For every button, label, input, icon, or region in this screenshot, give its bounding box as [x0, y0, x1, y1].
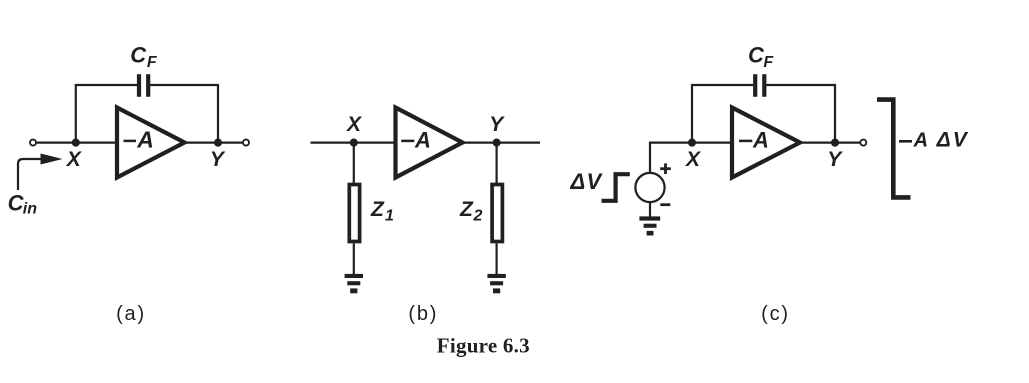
svg-text:Y: Y — [210, 148, 226, 171]
wire: source top to node X (c) — [650, 143, 692, 173]
minus sign of source — [660, 203, 670, 206]
label -A inside op-amp (a) — [124, 140, 137, 143]
step-down waveform symbol (output) — [877, 100, 911, 198]
svg-text:(b): (b) — [408, 303, 438, 325]
node X (a) — [72, 139, 80, 147]
wire: node X down to Z1 (b) — [353, 143, 355, 184]
svg-text:Y: Y — [489, 113, 505, 136]
output terminal (c) — [860, 140, 866, 146]
ground under Z2 — [487, 274, 505, 293]
svg-text:Y: Y — [827, 148, 843, 171]
svg-text:(c): (c) — [761, 303, 790, 325]
svg-text:A: A — [136, 127, 154, 153]
capacitor CF (c) — [755, 74, 764, 97]
svg-text:A: A — [414, 128, 431, 153]
label -A inside op-amp (b) — [401, 140, 414, 143]
op-amp -A (a) — [117, 108, 185, 178]
svg-text:(a): (a) — [116, 303, 146, 325]
svg-text:Z: Z — [459, 198, 474, 221]
wire: input terminal to amp input (a) — [36, 142, 117, 144]
node X (c) — [688, 139, 696, 147]
svg-text:2: 2 — [473, 208, 483, 225]
node Y (b) — [493, 139, 501, 147]
impedance Z1 box — [349, 185, 359, 242]
wire: node Y down to Z2 (b) — [496, 143, 498, 184]
wire: source bottom to ground (c) — [649, 202, 651, 217]
label -A inside op-amp (c) — [739, 140, 752, 143]
svg-text:X: X — [66, 148, 83, 171]
svg-text:ΔV: ΔV — [936, 129, 969, 152]
Cin arrowhead — [41, 154, 63, 165]
svg-text:Z: Z — [370, 198, 385, 221]
svg-text:C: C — [130, 43, 147, 68]
svg-text:A: A — [752, 128, 769, 153]
svg-text:F: F — [763, 54, 774, 71]
ground under source (c) — [639, 216, 660, 235]
svg-text:Figure 6.3: Figure 6.3 — [437, 334, 530, 358]
op-amp -A (b) — [396, 108, 463, 178]
op-amp -A (c) — [732, 108, 800, 178]
svg-text:F: F — [147, 54, 158, 71]
input terminal (a) — [30, 140, 36, 146]
svg-text:ΔV: ΔV — [570, 169, 604, 194]
wire: Z2 to ground (b) — [496, 244, 498, 276]
step-up waveform symbol — [602, 174, 630, 201]
impedance Z2 box — [492, 185, 502, 242]
capacitor CF (a) — [139, 74, 148, 97]
wire: amp output to output terminal (a) — [185, 142, 244, 144]
svg-text:X: X — [346, 113, 363, 136]
node Y (c) — [831, 139, 839, 147]
output terminal (a) — [243, 140, 249, 146]
wire: node X to amp input (c) — [692, 142, 732, 144]
ground under Z1 — [345, 274, 363, 293]
wire: feedback top right + right vertical (c) — [766, 85, 835, 143]
svg-text:X: X — [685, 148, 702, 171]
node Y (a) — [214, 139, 222, 147]
wire: feedback top right + right vertical (a) — [150, 85, 218, 143]
Cin leader arrow — [18, 159, 41, 190]
wire: feedback left vertical + top (a) — [76, 85, 137, 143]
wire: amp output to output terminal (c) — [800, 142, 860, 144]
label -A deltaV — [899, 140, 912, 143]
voltage source circle (c) — [635, 173, 664, 202]
node X (b) — [350, 139, 358, 147]
svg-text:A: A — [913, 130, 928, 152]
svg-text:1: 1 — [385, 208, 394, 225]
plus sign of source — [660, 163, 671, 174]
wire: main horizontal (b) — [311, 142, 541, 144]
wire: feedback left vertical + top (c) — [692, 85, 753, 143]
svg-text:in: in — [23, 201, 37, 218]
wire: Z1 to ground (b) — [353, 244, 355, 276]
